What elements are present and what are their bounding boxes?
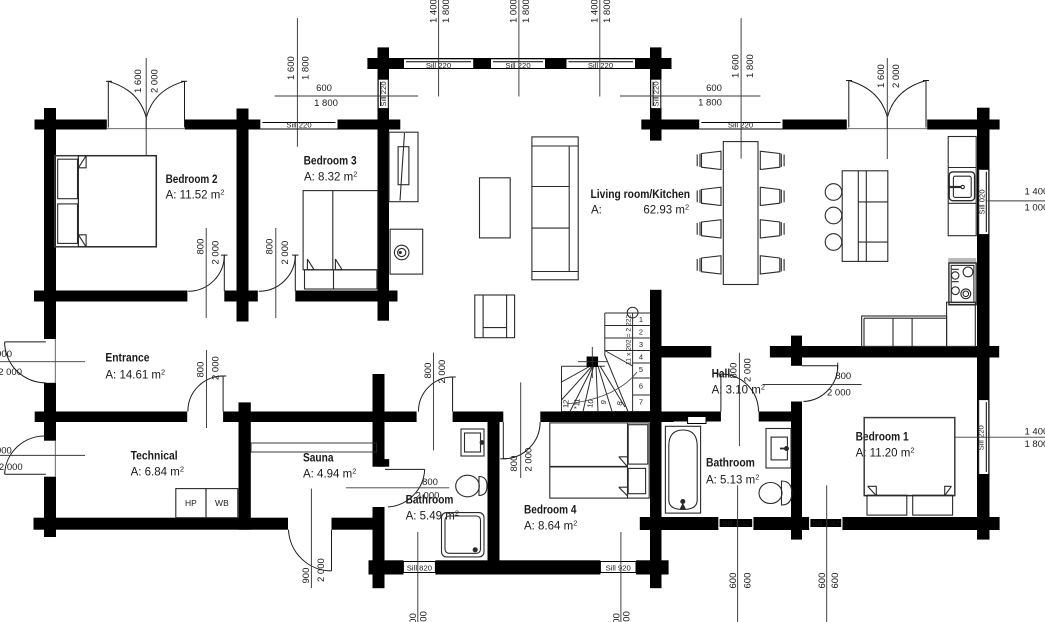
svg-text:2 000: 2 000	[891, 64, 902, 88]
bed bedroom3	[303, 191, 378, 289]
svg-text:Bedroom 2: Bedroom 2	[166, 174, 218, 186]
wall left outer V3 mid	[44, 383, 56, 441]
svg-text:7: 7	[639, 398, 643, 407]
wall lower H5 right segment	[540, 412, 674, 423]
wall middle H4 left segment	[34, 291, 187, 302]
coffee table living	[480, 178, 511, 238]
svg-text:2 000: 2 000	[280, 241, 291, 265]
door entrance exterior (left wall upper)	[5, 339, 56, 383]
door technical exterior (left wall lower)	[5, 436, 56, 477]
svg-text:Sill 020: Sill 020	[978, 189, 987, 214]
stairs circle	[627, 307, 638, 318]
wall left outer V3 lower	[44, 477, 56, 537]
dim line 600/1800 left	[275, 95, 418, 97]
wall sauna left V10 lower	[373, 507, 385, 588]
svg-text:2 000: 2 000	[0, 367, 22, 378]
svg-text:2: 2	[639, 328, 643, 337]
svg-text:3: 3	[639, 340, 643, 349]
wall lower H5 left segment	[35, 412, 188, 423]
kitchen worktop band	[948, 258, 976, 263]
bed bedroom1	[864, 418, 955, 516]
svg-text:1 600: 1 600	[876, 64, 887, 88]
svg-text:600: 600	[316, 83, 332, 94]
svg-text:Sauna: Sauna	[303, 453, 334, 465]
svg-text:600: 600	[728, 573, 739, 589]
door centerline kitchen top	[886, 58, 888, 159]
svg-text:600: 600	[611, 613, 622, 622]
svg-text:Bedroom 3: Bedroom 3	[304, 156, 357, 168]
svg-text:900: 900	[0, 349, 12, 360]
door double bedroom2 top	[106, 81, 187, 129]
svg-text:2 000: 2 000	[743, 358, 754, 382]
door bedroom2 from entrance	[188, 255, 227, 291]
door notch hall/bathroom wall	[688, 417, 706, 424]
svg-text:1 800: 1 800	[314, 98, 338, 109]
sauna door jamb block	[377, 459, 389, 467]
window Sill 220 top W2	[491, 59, 545, 70]
wall top-center H1	[367, 58, 671, 69]
svg-text:600: 600	[408, 613, 419, 622]
svg-text:Sill 220: Sill 220	[977, 425, 986, 450]
svg-text:800: 800	[509, 456, 520, 472]
wall left-wing top H2 mid segment	[185, 120, 260, 130]
window Sill 220 top W3	[567, 59, 636, 70]
kitchen counter right column	[948, 137, 976, 236]
svg-text:Sill 920: Sill 920	[606, 564, 631, 573]
svg-text:11 x 202 = 2 222: 11 x 202 = 2 222	[626, 314, 633, 365]
svg-text:1 600: 1 600	[133, 69, 144, 93]
window Sill 1 420 right-wing W13	[809, 518, 842, 528]
toilet bathroom513	[759, 481, 792, 505]
svg-text:600: 600	[419, 611, 430, 622]
svg-text:Sill 820: Sill 820	[407, 564, 432, 573]
svg-text:A: 3.10 m2: A: 3.10 m2	[712, 383, 765, 397]
svg-text:600: 600	[706, 83, 722, 94]
svg-text:4: 4	[639, 353, 643, 362]
svg-text:Sill 220: Sill 220	[505, 61, 530, 70]
kitchen island	[842, 171, 888, 262]
svg-text:900: 900	[0, 445, 12, 456]
svg-text:62.93 m2: 62.93 m2	[643, 202, 689, 216]
dining chairs left	[697, 151, 721, 274]
svg-text:600: 600	[830, 573, 841, 589]
dim line sauna door	[346, 487, 449, 489]
svg-text:1 400: 1 400	[1025, 426, 1045, 437]
wall middle H4 mid segment	[224, 291, 257, 302]
svg-text:Sill 220: Sill 220	[286, 121, 311, 130]
dim line window1 top	[438, 0, 440, 97]
wall bathroom/bedroom4 V9	[488, 412, 500, 563]
svg-text:1 600: 1 600	[730, 54, 741, 78]
svg-text:Sill 220: Sill 220	[588, 61, 613, 70]
svg-text:A: 14.61 m2: A: 14.61 m2	[105, 368, 165, 382]
washbasin bathroom549	[461, 429, 484, 456]
svg-text:A:: A:	[591, 204, 602, 216]
wall bottom center H8 seg3	[636, 560, 669, 574]
dim line bedroom3 door	[275, 228, 277, 318]
dim line hall door	[738, 353, 740, 446]
stairs newel post	[587, 357, 599, 368]
wall hall/bathroom H7 left segment	[650, 412, 721, 422]
wall left-wing top H2 left segment	[35, 120, 107, 130]
kitchen sink	[948, 172, 974, 201]
svg-text:A: 5.49 m2: A: 5.49 m2	[406, 508, 459, 522]
svg-text:2 000: 2 000	[0, 462, 23, 473]
wall hall/kitchen H6 left segment	[650, 346, 711, 358]
svg-text:A: 11.52 m2: A: 11.52 m2	[166, 188, 225, 202]
door double kitchen top	[846, 81, 929, 130]
wall right-wing bottom H9 seg3	[842, 517, 999, 530]
door centerline bedroom2 top	[145, 58, 147, 156]
dim line technical door	[206, 350, 208, 428]
wall bedroom3/living V1V5	[378, 47, 390, 320]
svg-text:Entrance: Entrance	[105, 353, 149, 365]
dim line technical door left	[0, 454, 85, 456]
svg-text:800: 800	[422, 477, 438, 488]
dining table	[723, 142, 758, 285]
svg-text:1 800: 1 800	[441, 0, 452, 23]
tv cabinet living	[389, 132, 418, 202]
window Sill 220 top W1	[404, 59, 473, 70]
door bedroom4 from corridor	[500, 422, 540, 459]
dim line 600 bathroom549	[417, 532, 419, 622]
window Sill 220 vertical W9 on V8 bedroom1	[977, 400, 989, 474]
svg-text:800: 800	[196, 362, 207, 378]
armchair living	[475, 295, 515, 338]
wall bottom left-wing H10 right segment	[332, 518, 385, 530]
wall sauna left V10 upper	[373, 374, 385, 467]
dim line 600/1800 right	[620, 95, 760, 97]
wall bottom left-wing H10 left segment	[34, 518, 289, 530]
dim line window2 top	[518, 0, 520, 97]
svg-text:1 400: 1 400	[590, 0, 601, 23]
window Sill 220 left-wing W4	[260, 121, 337, 130]
svg-text:2 000: 2 000	[523, 448, 534, 472]
svg-text:Bedroom 4: Bedroom 4	[524, 505, 577, 517]
wall right-wing top H3 right segment	[927, 120, 999, 130]
svg-text:Sill 1 42: Sill 1 42	[722, 519, 749, 528]
svg-text:1 800: 1 800	[1025, 439, 1045, 450]
svg-text:900: 900	[301, 568, 312, 584]
wall hall/bathroom H7 right segment	[759, 412, 795, 422]
svg-text:5: 5	[639, 365, 643, 374]
wall hall/bedroom1 V7 lower	[791, 402, 802, 540]
wall right outer V8	[977, 108, 990, 540]
shower bathroom549	[442, 513, 485, 557]
window Sill 920 bottom W11	[600, 562, 636, 573]
washbasin bathroom513	[766, 429, 791, 469]
window Sill 220 vertical W6 on V1	[379, 80, 389, 108]
svg-text:Hall: Hall	[712, 369, 731, 381]
svg-text:2 000: 2 000	[437, 360, 448, 384]
kitchen counter bottom row	[862, 302, 976, 346]
wall lower H5 mid segment	[223, 412, 417, 423]
svg-text:1 000: 1 000	[1025, 203, 1045, 214]
stairs outline	[562, 313, 651, 412]
bed bedroom4	[550, 423, 649, 498]
svg-text:600: 600	[622, 611, 633, 622]
svg-text:Sill 220: Sill 220	[652, 81, 661, 106]
svg-text:Bathroom: Bathroom	[706, 458, 755, 470]
svg-text:Bathroom: Bathroom	[406, 495, 454, 507]
wall technical/sauna V11	[239, 402, 251, 529]
dim line entrance door left	[0, 361, 85, 363]
svg-text:Sill 220: Sill 220	[379, 81, 388, 106]
dim line bedroom1 door	[763, 384, 862, 386]
svg-text:2 000: 2 000	[316, 558, 327, 582]
bed bedroom2	[55, 156, 157, 247]
svg-text:1 800: 1 800	[521, 0, 532, 23]
dim line sauna exterior door	[310, 489, 312, 588]
dim line kitchen window right	[987, 200, 1045, 202]
bar stools	[825, 184, 842, 201]
door technical from entrance	[188, 376, 226, 412]
wall bottom center H8 seg2	[435, 560, 600, 574]
svg-text:A: 5.13 m2: A: 5.13 m2	[706, 473, 759, 487]
svg-text:Sill 220: Sill 220	[728, 121, 753, 130]
HP box	[176, 489, 238, 518]
dim line right-wing window vertical	[740, 18, 742, 159]
window Sill 020 vertical W8 on V8 kitchen	[978, 170, 989, 234]
door bedroom1 from hall	[802, 363, 838, 402]
dim line bedroom1 window right	[955, 436, 1045, 438]
wall right-wing bottom H9 seg2	[753, 517, 809, 530]
svg-text:*11: *11	[572, 398, 582, 409]
wall right-wing top H3 left segment	[641, 120, 699, 130]
dim line 600 bathroom513	[737, 485, 739, 622]
door sauna exterior bottom	[289, 530, 332, 571]
stairs walk line	[567, 372, 637, 404]
svg-text:600: 600	[743, 573, 754, 589]
svg-text:Sill 1 42: Sill 1 42	[812, 519, 839, 528]
svg-text:A: 8.64 m2: A: 8.64 m2	[524, 519, 577, 533]
wall hall/bedroom1 V7 upper stub	[791, 336, 802, 366]
svg-text:1: 1	[639, 315, 643, 324]
dim line 600 bedroom4	[620, 532, 622, 622]
svg-text:1 400: 1 400	[1025, 186, 1045, 197]
window Sill 820 bottom W10	[403, 562, 435, 573]
svg-text:Technical: Technical	[131, 451, 178, 463]
svg-text:10: 10	[585, 399, 595, 409]
svg-text:800: 800	[265, 239, 276, 255]
svg-text:1 000: 1 000	[509, 0, 520, 23]
wall lower H5 seg3	[453, 412, 504, 423]
svg-text:1 400: 1 400	[429, 0, 440, 23]
svg-text:WB: WB	[215, 498, 229, 508]
wall right-wing top H3 mid segment	[783, 120, 847, 130]
kitchen hob	[949, 263, 976, 305]
svg-text:1 600: 1 600	[286, 56, 297, 80]
stairs number lane divider	[632, 313, 634, 412]
svg-text:12: 12	[561, 400, 570, 409]
wall living right V2 upper	[650, 47, 662, 140]
svg-text:A: 8.32 m2: A: 8.32 m2	[304, 170, 357, 184]
svg-text:800: 800	[423, 363, 434, 379]
door bathroom549 from corridor	[418, 377, 455, 412]
wall bedroom2/3 V4	[237, 109, 249, 322]
svg-text:1 800: 1 800	[698, 97, 722, 108]
wall bottom center H8 seg1	[369, 560, 404, 574]
wall left outer V3 upper	[44, 108, 56, 339]
svg-text:A: 6.84 m2: A: 6.84 m2	[131, 465, 184, 479]
svg-text:6: 6	[639, 382, 643, 391]
stairs numbers	[561, 315, 643, 410]
door bedroom3 from entrance	[259, 255, 299, 291]
svg-text:800: 800	[195, 239, 206, 255]
stairs treads upper	[605, 326, 650, 396]
svg-text:600: 600	[817, 573, 828, 589]
svg-text:800: 800	[835, 371, 851, 382]
svg-text:HP: HP	[185, 498, 197, 508]
window Sill 220 right-wing W5	[699, 121, 782, 130]
wall stair/hall V6	[650, 290, 662, 588]
dim line bedroom3 window vertical	[296, 18, 298, 147]
svg-text:Living room/Kitchen: Living room/Kitchen	[591, 189, 691, 201]
toilet bathroom549	[456, 475, 487, 497]
door sauna	[385, 469, 425, 507]
dim line bedroom4 door	[520, 382, 522, 478]
wall hall/kitchen H6 right segment	[770, 346, 999, 358]
stairs winder edges	[562, 351, 633, 412]
svg-text:A: 4.94 m2: A: 4.94 m2	[303, 467, 356, 481]
dim line 600 bedroom1	[826, 485, 828, 622]
dim line bathroom549 door	[433, 353, 435, 451]
window Sill 1 420 right-wing W12	[718, 518, 753, 528]
sauna bench	[251, 443, 377, 452]
svg-text:2 000: 2 000	[827, 387, 851, 398]
svg-text:1 800: 1 800	[745, 54, 756, 78]
wall left-wing top H2 right segment	[338, 120, 401, 130]
dim line window3 top	[599, 0, 601, 97]
door hall to bathroom513	[718, 374, 759, 412]
svg-text:1 800: 1 800	[602, 0, 613, 23]
stove fireplace	[390, 229, 423, 274]
window Sill 220 vertical W7 on V2	[651, 80, 661, 108]
svg-text:2 000: 2 000	[150, 69, 161, 93]
svg-text:2 000: 2 000	[211, 241, 222, 265]
svg-text:2 000: 2 000	[210, 356, 221, 380]
svg-text:1 800: 1 800	[300, 56, 311, 80]
bathtub bathroom513	[665, 426, 700, 513]
wall right-wing bottom H9 seg1	[640, 517, 719, 530]
dim line bedroom2 door	[205, 228, 207, 318]
dining chairs right	[760, 151, 784, 274]
wall middle H4 right segment	[295, 291, 397, 302]
sofa living	[532, 137, 578, 280]
